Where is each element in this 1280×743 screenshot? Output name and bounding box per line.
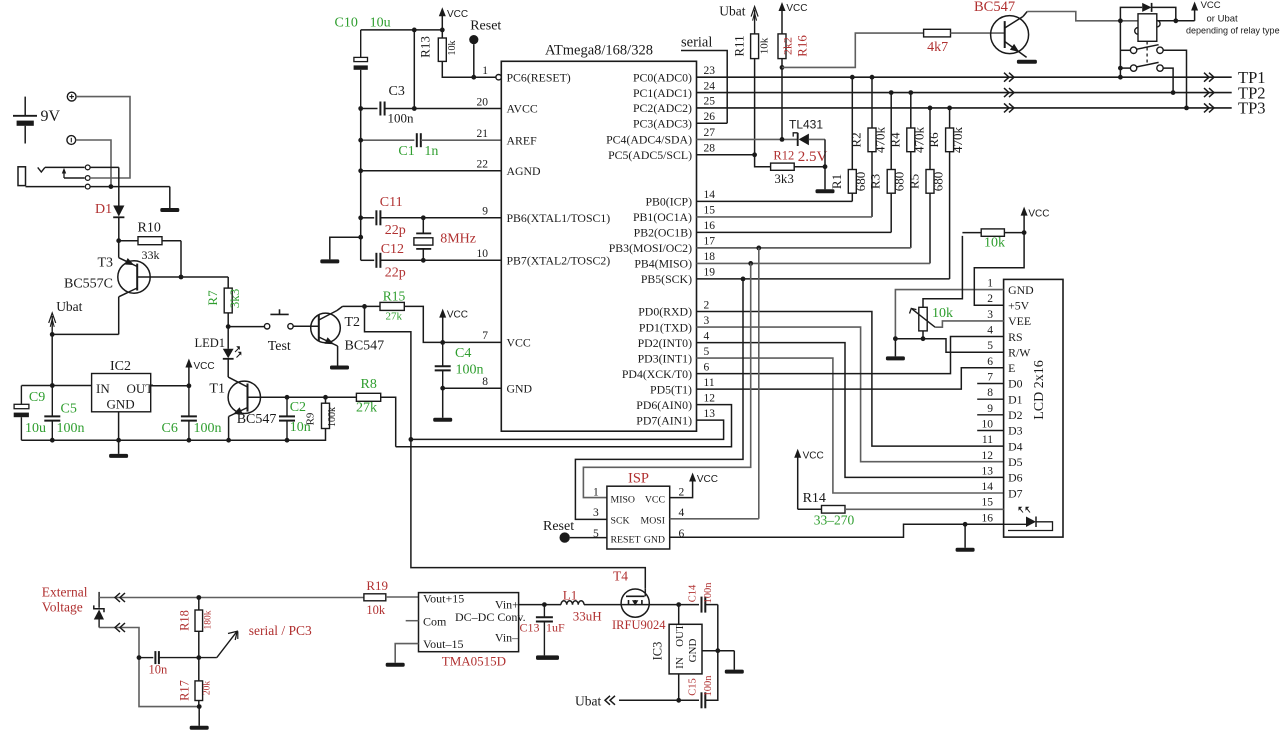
svg-text:C14: C14 [688,584,699,602]
flyback diode relay [1120,3,1175,21]
svg-text:C13: C13 [520,621,540,635]
svg-text:100k: 100k [327,407,338,427]
ground main rail [109,440,128,458]
node VCC C6 [187,383,192,388]
svg-text:9V: 9V [41,108,61,125]
ground TL431 [816,167,835,194]
wire AGND [361,170,502,172]
relay actuator dashes [1146,42,1148,65]
label depending of relay type [1186,26,1280,36]
wire LCD GND pin1 [895,290,1003,339]
svg-text:Ubat: Ubat [575,694,601,709]
svg-text:470k: 470k [911,127,926,154]
svg-text:8MHz: 8MHz [440,232,476,247]
node gnd line [715,648,720,653]
svg-text:22p: 22p [385,266,406,281]
svg-text:RS: RS [1008,330,1022,344]
wire TL431 anode down [824,139,826,166]
node IC3 out [676,602,681,607]
wire PB2 [697,231,892,233]
capacitor C13 1uF [520,605,566,660]
svg-text:10k: 10k [366,603,386,617]
svg-text:AVCC: AVCC [507,102,538,116]
svg-text:R12: R12 [773,149,794,163]
wire Reset to ISP [570,537,607,539]
node crystal bottom [421,258,426,263]
svg-text:+5V: +5V [1008,298,1030,312]
svg-text:10u: 10u [370,16,391,31]
node 10n left [137,655,142,660]
wire IC2 GND to rail [118,412,120,440]
svg-text:R11: R11 [732,35,747,56]
LED LED1 [195,327,242,378]
svg-text:17: 17 [704,236,716,248]
bottom ground rail left section [21,429,325,441]
node Ubat C15 [676,698,681,703]
wire Test to T2 base [293,325,319,327]
wire BC547 collector to relay [1027,12,1138,21]
svg-text:Reset: Reset [543,519,574,534]
svg-text:PB3(MOSI/OC2): PB3(MOSI/OC2) [609,241,692,255]
svg-text:1n: 1n [424,144,438,159]
LED backlight LCD [1004,507,1053,531]
resistor R4 470k [887,90,926,248]
svg-text:680: 680 [931,172,946,192]
transistor Q-BC547 relay driver [974,0,1029,57]
svg-text:TMA0515D: TMA0515D [442,654,506,669]
resistor R16 2k2 [778,34,810,139]
svg-text:ISP: ISP [628,471,649,487]
node relay right [1173,18,1178,23]
svg-text:10k: 10k [932,306,953,321]
wire ISP VCC [670,484,693,498]
svg-text:R13: R13 [418,36,433,58]
capacitor C3 100n [361,84,415,126]
node R12 right [823,164,828,169]
svg-text:R/W: R/W [1008,345,1031,359]
VCC arrow ISP [689,473,718,486]
svg-text:depending of relay type: depending of relay type [1186,26,1280,36]
svg-text:100n: 100n [456,363,484,378]
node PD7 T2col [409,437,414,442]
wire PC0 TP1 [697,76,1232,78]
wire PB4 MISO [697,262,931,264]
node divider mid [196,655,201,660]
arrow serial / PC3 [199,623,312,658]
svg-text:PB5(SCK): PB5(SCK) [641,272,692,286]
svg-text:100n: 100n [194,421,222,436]
svg-text:180k: 180k [204,610,214,629]
svg-text:serial: serial [681,35,712,51]
svg-text:R16: R16 [795,35,810,57]
TL431 [697,118,828,166]
svg-text:24: 24 [704,80,716,92]
svg-text:PC1(ADC1): PC1(ADC1) [633,86,692,100]
svg-text:2k2: 2k2 [781,37,795,55]
pushbutton Test [264,309,293,354]
resistor R2 470k [849,75,888,217]
svg-text:3: 3 [704,315,710,327]
svg-text:PB1(OC1A): PB1(OC1A) [633,210,692,224]
svg-text:PC2(ADC2): PC2(ADC2) [633,101,692,115]
wire PD7 rail [411,420,724,439]
IC right pin labels [606,65,715,427]
svg-text:BC557C: BC557C [64,277,113,292]
svg-text:C1: C1 [398,144,414,159]
capacitor 10n ext [139,651,199,676]
svg-text:27k: 27k [356,401,377,416]
capacitor C11 22p [361,195,424,238]
svg-text:Test: Test [268,339,291,354]
svg-text:2: 2 [704,299,710,311]
wire PB3 MOSI [697,247,911,249]
svg-text:PB2(OC1B): PB2(OC1B) [634,226,692,240]
diode Schottky ext [94,592,104,628]
wire Ubat down to IC2 IN line [51,334,53,385]
wire R19 to DCDC [386,596,419,598]
wire relay common column [1118,21,1123,80]
wire IC2 OUT line [151,385,189,387]
resistor R19 10k [364,578,388,617]
wire 4k7 to BC547 base [951,32,1005,34]
svg-text:MISO: MISO [611,495,636,506]
svg-text:27: 27 [704,127,716,139]
svg-text:PD7(AIN1): PD7(AIN1) [636,413,692,427]
svg-text:GND: GND [1008,283,1034,297]
svg-text:LCD 2x16: LCD 2x16 [1032,360,1047,420]
inductor L1 33uH [561,588,602,624]
svg-text:100n: 100n [57,421,85,436]
svg-text:16: 16 [704,220,716,232]
svg-text:11: 11 [704,377,715,389]
chevrons TP lines mid [1004,73,1014,113]
svg-text:PC6(RESET): PC6(RESET) [507,70,571,84]
resistor R3 680 [868,90,907,232]
node D1/R10/T3 emitter [116,238,121,243]
svg-text:3k3: 3k3 [774,171,794,186]
svg-text:RESET: RESET [611,535,641,546]
wire pot bottom rw [895,339,1003,353]
svg-text:BC547: BC547 [345,339,385,354]
svg-text:5: 5 [987,340,993,352]
label TP3 [1238,99,1266,118]
svg-text:680: 680 [853,172,868,192]
wire PC5 [697,154,755,156]
svg-text:Reset: Reset [470,19,501,34]
resistor R9 100k [305,397,339,428]
power jack body [18,167,45,186]
junction sleeve/minus [109,184,114,189]
node PC5 R11 R12 [752,152,757,157]
ground jack [160,187,179,212]
svg-text:10k: 10k [447,41,458,56]
svg-text:12: 12 [704,392,716,404]
node R16 4k7 [780,65,785,70]
wire R8 to PD6 rail [381,397,396,446]
svg-text:TP3: TP3 [1238,99,1266,118]
svg-text:12: 12 [982,450,994,462]
wire PB0 [697,200,853,202]
svg-text:R4: R4 [887,132,902,148]
wire PB6 to IC [423,217,501,219]
wire PD4 to LCD RS [697,337,1004,374]
node 10k vcc [1022,230,1027,235]
svg-text:10n: 10n [149,663,169,677]
wire ext top [99,597,364,599]
VCC arrow at IC2 out [185,359,214,386]
wire T3 base to R7 [181,276,228,278]
svg-text:33k: 33k [142,248,160,262]
svg-text:100n: 100n [703,582,714,604]
svg-text:IN: IN [674,657,686,669]
wire R7 to Test button [228,326,264,328]
svg-text:R15: R15 [383,289,406,304]
svg-text:IC3: IC3 [651,642,665,661]
wire Vout-15 to gnd [386,644,419,667]
resistor R15 27k [380,289,406,323]
svg-text:3: 3 [593,507,599,519]
node T3 base / R10 [179,275,184,280]
wire PD3 to LCD D7 [697,358,1004,493]
svg-text:9: 9 [482,206,488,218]
transistor T2 BC547 [311,306,384,365]
battery 9V [13,97,61,144]
svg-text:7: 7 [482,330,488,342]
svg-text:TL431: TL431 [789,118,823,132]
capacitor C1 1n on AREF [361,133,502,159]
svg-text:11: 11 [982,434,993,446]
svg-text:100n: 100n [388,111,415,126]
svg-text:E: E [1008,361,1015,375]
svg-text:R10: R10 [138,221,161,236]
svg-text:10u: 10u [25,421,46,436]
svg-text:10k: 10k [984,236,1005,251]
svg-text:VCC: VCC [803,451,824,462]
svg-text:6: 6 [679,528,685,540]
label External Voltage [42,585,88,615]
svg-text:GND: GND [107,397,135,412]
pushbutton Reset bottom [543,519,574,543]
svg-text:13: 13 [982,465,994,477]
svg-text:1uF: 1uF [546,621,565,635]
svg-text:External: External [42,585,88,600]
svg-text:Ubat: Ubat [56,299,82,314]
svg-text:GND: GND [644,535,665,546]
resistor R1 680 [829,75,868,202]
svg-text:Voltage: Voltage [42,600,83,615]
capacitor C6 100n [162,386,222,440]
svg-text:4: 4 [987,325,993,337]
svg-text:1: 1 [593,487,599,499]
wire PB5 SCK [697,278,950,280]
wire MISO vertical [583,261,753,498]
svg-text:C15: C15 [688,678,699,696]
node TP2 relay [1171,90,1176,95]
wire AVCC to IC [414,108,501,110]
wire T4 drain [649,604,699,606]
stub Com [406,620,419,622]
node GND pin8 [440,386,445,391]
svg-text:D1: D1 [1008,392,1023,406]
wire L1 to T4 [584,604,621,606]
svg-text:Vin–: Vin– [495,631,519,645]
pushbutton Reset top [469,19,501,78]
svg-text:R6: R6 [926,132,941,148]
svg-text:C9: C9 [29,390,45,405]
svg-text:C4: C4 [455,346,471,361]
svg-text:6: 6 [987,356,993,368]
wire PB1 [697,216,873,218]
VCC arrow R14 [794,449,824,510]
svg-text:C6: C6 [162,421,178,436]
wire PC1 TP2 [697,92,1232,94]
svg-text:IC2: IC2 [110,359,131,374]
node C11 left [358,215,363,220]
jack middle contact [64,176,90,181]
svg-text:R5: R5 [907,174,922,189]
wire pot wiper to VEE [935,321,1004,327]
chevron ext top [115,593,125,602]
node VCC pin7 [440,340,445,345]
wire PB7 to IC [423,259,501,261]
svg-text:D1: D1 [95,202,112,217]
svg-text:4k7: 4k7 [927,40,948,55]
node T2 collector R15 [362,304,367,309]
svg-text:ATmega8/168/328: ATmega8/168/328 [545,43,653,59]
transistor T4 IRFU9024 [612,569,666,633]
svg-text:15: 15 [982,497,994,509]
svg-text:C12: C12 [381,242,404,257]
capacitor C10 10u [335,16,391,109]
LCD pin labels [982,278,1035,525]
svg-text:GND: GND [687,639,699,663]
svg-text:R18: R18 [178,610,192,631]
svg-text:C11: C11 [380,195,403,210]
node C10 AVCC [358,106,416,111]
capacitor C9 10u [14,386,46,441]
svg-text:PC0(ADC0): PC0(ADC0) [633,70,692,84]
svg-text:23: 23 [704,65,716,77]
node R18 top [196,595,201,600]
svg-text:PB0(ICP): PB0(ICP) [645,195,692,209]
svg-text:PC4(ADC4/SDA): PC4(ADC4/SDA) [606,133,692,147]
svg-text:PC5(ADC5/SCL): PC5(ADC5/SCL) [608,148,692,162]
ground LCD [886,339,905,361]
svg-text:VCC: VCC [1028,209,1049,220]
svg-text:9: 9 [987,403,993,415]
svg-text:R8: R8 [361,377,377,392]
svg-text:D5: D5 [1008,455,1023,469]
wire ext bottom [99,628,199,707]
Ubat arrow label [49,299,83,334]
ground ext divider [190,707,209,730]
wire GND pin8 [443,387,502,389]
node T1 base [285,395,290,400]
node R9 top [323,395,328,400]
svg-text:T4: T4 [613,569,628,584]
node R17 bottom [197,704,202,709]
svg-text:D4: D4 [1008,439,1023,453]
svg-text:7: 7 [987,372,993,384]
resistor R17 20k [178,658,213,707]
svg-text:or Ubat: or Ubat [1207,14,1239,25]
wire T2 collector net down to PD7 [365,306,646,588]
node C5 top [50,383,55,388]
svg-text:27k: 27k [386,311,403,323]
svg-text:D2: D2 [1008,408,1023,422]
svg-text:10k: 10k [759,37,771,54]
LCD D0-D3 stubs [977,384,1003,431]
svg-text:22p: 22p [385,223,406,238]
node C13 [542,602,547,607]
svg-text:AGND: AGND [507,164,542,178]
label Ubat bottom [575,694,615,709]
svg-text:T3: T3 [98,256,114,271]
wire left column C10 [360,109,362,261]
node AGND [358,168,363,173]
rail junction dots [50,438,290,443]
svg-text:PD1(TXD): PD1(TXD) [639,320,692,334]
svg-text:T2: T2 [345,315,361,330]
VCC arrow pin7 [439,309,468,343]
svg-text:Vout–15: Vout–15 [423,637,463,651]
svg-text:PC3(ADC3): PC3(ADC3) [633,116,692,130]
svg-text:R3: R3 [868,174,883,189]
svg-text:R17: R17 [178,680,192,701]
capacitor C14 100n [688,582,718,613]
svg-text:22: 22 [477,159,489,171]
label TP1 [1238,68,1266,87]
svg-text:PD6(AIN0): PD6(AIN0) [636,398,692,412]
svg-text:Vout+15: Vout+15 [423,592,464,606]
IC U1 ATmega8/168/328 [501,43,696,432]
svg-text:serial / PC3: serial / PC3 [249,623,312,638]
svg-text:470k: 470k [873,127,888,154]
net serial [681,35,727,124]
svg-text:680: 680 [892,172,907,192]
svg-text:PB6(XTAL1/TOSC1): PB6(XTAL1/TOSC1) [507,211,611,225]
pin1 open circle [496,75,501,80]
wire PD1 to LCD D5 [697,327,1004,462]
wire PD2 to LCD D6 [697,343,1004,478]
node top rail R13 [412,28,445,33]
jack sleeve contact [26,184,170,189]
IC left pin labels [477,65,611,395]
svg-text:C5: C5 [61,402,77,417]
wire minus terminal to jack sleeve [76,140,111,187]
svg-text:6: 6 [704,361,710,373]
wire ISP MOSI [670,518,759,520]
ground LCD pin16 [956,524,975,552]
svg-text:470k: 470k [950,127,965,154]
svg-text:4: 4 [679,507,685,519]
svg-text:PD0(RXD): PD0(RXD) [638,305,692,319]
node IC2 GND rail [116,438,121,443]
svg-text:33uH: 33uH [573,609,602,624]
resistor R13 10k [418,30,497,77]
wire plus terminal to jack middle contact [76,97,130,178]
capacitor C2 10n [279,397,311,440]
svg-text:GND: GND [507,381,533,395]
svg-text:OUT: OUT [674,624,686,647]
label or Ubat [1207,14,1239,25]
svg-text:VCC: VCC [447,310,468,321]
svg-text:MOSI: MOSI [641,516,666,527]
VCC arrow LCD [1021,207,1050,233]
svg-text:R1: R1 [829,174,844,189]
node reset pin1 [471,75,476,80]
wire T3 collector to Ubat node [52,333,119,335]
